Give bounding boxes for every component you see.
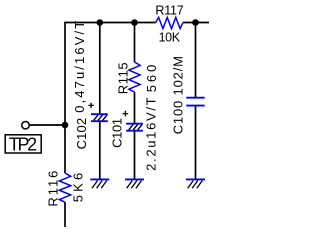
capacitor C100 <box>171 56 205 134</box>
wire R115 to C101 <box>134 92 136 124</box>
wire TP2 stub <box>30 124 66 126</box>
svg-text:C101: C101 <box>110 118 125 148</box>
test point TP2 terminal circle <box>22 122 29 129</box>
svg-text:0,47u/16V/T: 0,47u/16V/T <box>72 21 87 113</box>
wire left branch vertical (rail corner to TP2 node) <box>64 22 66 125</box>
wire rail to C100 <box>195 23 197 98</box>
capacitor C101 (polarized) <box>110 97 159 171</box>
wire rail to R115 <box>134 23 136 63</box>
node junction dot on rail above C100 <box>192 19 199 26</box>
svg-text:C100 102/M: C100 102/M <box>171 56 186 134</box>
svg-text:C102: C102 <box>74 118 89 150</box>
resistor R117 <box>155 3 183 44</box>
node junction dot on rail above R115 <box>131 19 138 26</box>
svg-text:10K: 10K <box>159 31 181 45</box>
svg-text:TP2: TP2 <box>9 135 37 155</box>
wire rail to C102 <box>99 23 101 115</box>
polarity + of C101 <box>123 111 129 117</box>
label TP2 box <box>5 135 41 153</box>
wire C101 to ground <box>134 131 136 179</box>
polarity + of C102 <box>88 103 93 108</box>
node junction dot on rail above C102 <box>97 19 104 26</box>
capacitor C102 (polarized) <box>72 21 108 150</box>
ground under C100 <box>186 179 205 188</box>
wire top rail right segment <box>183 22 209 24</box>
resistor R116 <box>45 171 85 207</box>
node junction dot at TP2 <box>62 122 69 129</box>
svg-text:R116: R116 <box>45 171 60 207</box>
wire TP2 node to R116 <box>64 125 66 173</box>
wire C102 to ground <box>99 121 101 178</box>
resistor R115 <box>116 62 160 94</box>
wire C100 to ground <box>195 106 197 179</box>
svg-text:560: 560 <box>144 65 159 93</box>
wire top rail left segment <box>65 22 155 24</box>
ground under C102 <box>90 179 109 188</box>
svg-text:R115: R115 <box>116 62 131 94</box>
svg-text:5K6: 5K6 <box>71 173 86 203</box>
ground under C101 <box>125 179 144 188</box>
svg-text:2.2u16V/T: 2.2u16V/T <box>144 97 159 171</box>
svg-text:R117: R117 <box>155 3 183 17</box>
wire R116 bottom to edge <box>64 202 66 227</box>
